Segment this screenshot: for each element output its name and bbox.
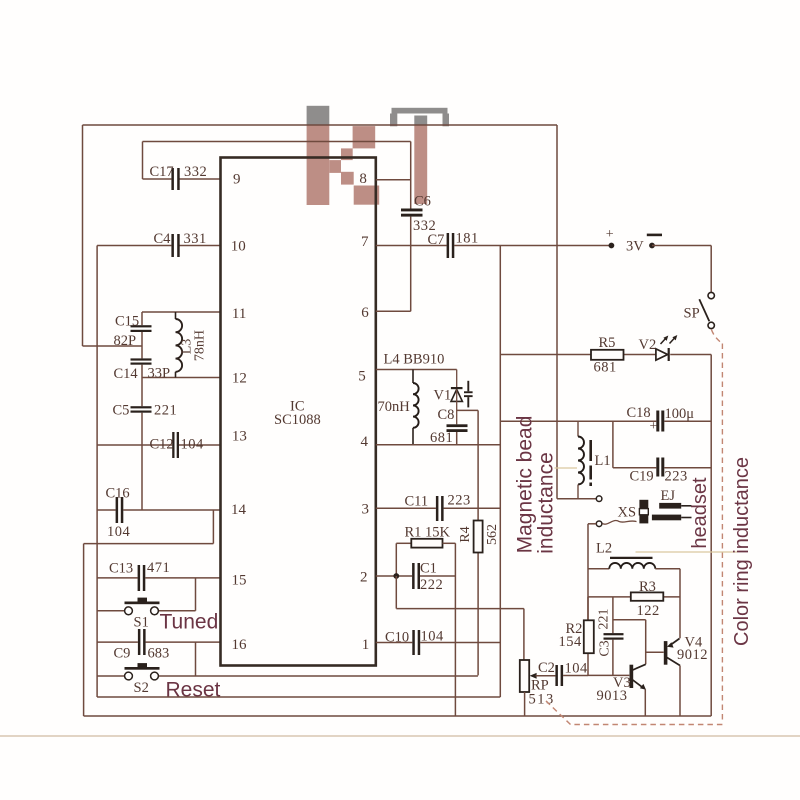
LED V2 — [639, 335, 678, 361]
svg-text:78nH: 78nH — [193, 330, 208, 361]
svg-text:C5: C5 — [113, 403, 130, 419]
capacitor C1 — [412, 561, 443, 594]
node pin2 dot — [393, 573, 399, 579]
svg-text:R1 15K: R1 15K — [405, 525, 451, 541]
pin 10 — [231, 239, 246, 255]
svg-text:C16: C16 — [106, 486, 130, 502]
pin 6 — [361, 305, 369, 321]
capacitor C2 — [538, 660, 588, 686]
switch S2 — [97, 642, 478, 696]
svg-text:headset: headset — [689, 477, 711, 549]
capacitor C17 — [150, 164, 208, 190]
svg-text:V2: V2 — [639, 337, 657, 353]
wire R3 row — [588, 596, 680, 598]
svg-text:104: 104 — [181, 437, 205, 453]
svg-text:683: 683 — [148, 646, 170, 662]
capacitor C6 — [401, 194, 436, 235]
wire pin14 row / C16 — [97, 509, 220, 511]
capacitor C9 — [114, 629, 170, 662]
svg-text:15: 15 — [232, 573, 247, 589]
label Reset — [166, 679, 221, 702]
capacitor C14 — [114, 358, 171, 382]
svg-text:223: 223 — [665, 469, 688, 485]
svg-text:14: 14 — [231, 502, 247, 518]
inductor L4 — [378, 370, 419, 445]
transistor V4 — [664, 635, 708, 666]
wire pin9 row / C17 — [143, 178, 221, 180]
svg-text:SP: SP — [684, 306, 700, 322]
svg-text:XS: XS — [618, 505, 637, 521]
wire RP wiper to C2 — [536, 675, 556, 677]
wire C18 L1 row — [500, 420, 711, 422]
svg-text:9012: 9012 — [677, 647, 708, 663]
callout line color ring — [636, 551, 738, 553]
capacitor C3 — [597, 609, 624, 657]
capacitor C13 — [109, 560, 170, 591]
svg-text:EJ: EJ — [661, 488, 676, 504]
pin 2 — [360, 570, 368, 586]
svg-text:82P: 82P — [114, 333, 137, 349]
svg-text:Magnetic bead: Magnetic bead — [514, 416, 537, 554]
capacitor C18 — [627, 405, 695, 433]
svg-text:332: 332 — [184, 164, 207, 180]
label Tuned — [160, 611, 219, 634]
jack node lower circle — [596, 520, 636, 526]
svg-text:10: 10 — [231, 239, 246, 255]
svg-text:R5: R5 — [599, 335, 616, 351]
svg-text:104: 104 — [421, 629, 445, 645]
svg-text:7: 7 — [361, 234, 369, 250]
svg-text:C14: C14 — [114, 366, 139, 382]
wire C6 column — [410, 142, 412, 312]
svg-text:3V: 3V — [626, 239, 644, 255]
wire bus bottom — [97, 696, 500, 698]
svg-text:104: 104 — [565, 661, 589, 677]
transistor V3 — [597, 664, 647, 704]
svg-text:inductance: inductance — [535, 452, 558, 554]
svg-text:8: 8 — [359, 171, 367, 187]
wire right rail — [710, 355, 712, 717]
resistor R3 — [631, 579, 664, 619]
svg-text:221: 221 — [154, 403, 177, 419]
svg-text:5: 5 — [358, 369, 366, 385]
svg-text:221: 221 — [597, 609, 612, 630]
wire V3 emitter down — [644, 690, 646, 717]
resistor R2 — [559, 597, 594, 653]
svg-text:C9: C9 — [114, 646, 131, 662]
scan fold line — [0, 735, 800, 737]
wire C8 to pin4 row — [456, 432, 458, 445]
svg-text:9: 9 — [233, 172, 241, 188]
svg-text:6: 6 — [361, 305, 369, 321]
svg-text:16: 16 — [232, 637, 248, 653]
label L4 BB910 — [384, 352, 445, 368]
wire pin16 row / C9 — [97, 641, 220, 643]
wire pin13 row / C12 — [97, 444, 220, 446]
wire left bus — [96, 246, 98, 698]
wire pin10 row / C4 — [97, 245, 220, 247]
svg-text:SC1088: SC1088 — [274, 412, 321, 428]
headset plug EJ — [652, 488, 692, 520]
wire ground column — [454, 543, 456, 716]
svg-text:S2: S2 — [134, 680, 149, 696]
wire C19 row — [613, 467, 711, 469]
switch SP — [684, 292, 715, 328]
svg-text:70nH: 70nH — [378, 399, 411, 415]
wire L1 bottom row — [557, 498, 596, 500]
pin 4 — [361, 434, 369, 450]
wire pin1 row / C10 — [376, 642, 501, 644]
wire pin12 row — [142, 377, 221, 379]
wire pin11 row — [142, 311, 221, 313]
potentiometer RP — [520, 660, 555, 716]
svg-text:Reset: Reset — [166, 679, 221, 702]
svg-text:154: 154 — [559, 634, 583, 650]
svg-text:S1: S1 — [134, 615, 149, 631]
wire pin14 ground link — [84, 543, 214, 545]
capacitor C16 — [106, 486, 131, 541]
pin 7 — [361, 234, 369, 250]
svg-text:11: 11 — [232, 306, 246, 322]
wire main V+ column — [499, 246, 501, 698]
wire top border — [83, 124, 558, 126]
inductor L2 — [588, 541, 680, 569]
wire V3 base — [588, 674, 629, 676]
capacitor C12 — [150, 432, 205, 458]
label Color ring inductance — [731, 457, 753, 646]
svg-text:681: 681 — [430, 430, 453, 446]
wire V4 base — [646, 651, 664, 653]
svg-text:C3: C3 — [598, 640, 613, 656]
svg-text:L2: L2 — [596, 541, 612, 557]
wire pin2 row / C1 — [376, 575, 456, 577]
svg-text:4: 4 — [361, 434, 369, 450]
jack XS — [618, 500, 649, 524]
wire C2 to V3 base — [563, 675, 588, 677]
pin 9 — [233, 172, 241, 188]
callout line magnetic bead — [555, 467, 578, 469]
svg-text:223: 223 — [448, 493, 471, 509]
wire border to C15/C14 node — [83, 345, 143, 347]
wire lower left vertical — [83, 544, 85, 716]
svg-text:C18: C18 — [627, 405, 651, 421]
svg-text:562: 562 — [485, 524, 500, 545]
pin 3 — [362, 502, 370, 518]
svg-text:C2: C2 — [538, 660, 555, 676]
dashed link SP to RP — [545, 330, 723, 725]
wire C15/C14/C5 column — [141, 312, 143, 510]
switch S1 — [97, 578, 195, 631]
label Magnetic bead inductance — [514, 416, 558, 554]
jack node upper circle — [596, 496, 602, 502]
wire left border — [82, 125, 84, 346]
wire antenna column — [556, 125, 558, 499]
svg-text:100μ: 100μ — [665, 406, 695, 422]
svg-text:104: 104 — [107, 524, 131, 540]
svg-text:1: 1 — [362, 637, 370, 653]
svg-text:C6: C6 — [414, 194, 431, 210]
svg-text:C19: C19 — [630, 469, 654, 485]
wire pin6 stub — [376, 310, 411, 312]
wire volume feed — [396, 576, 524, 660]
svg-text:331: 331 — [184, 231, 207, 247]
svg-text:C1: C1 — [420, 561, 437, 577]
pin 16 — [232, 637, 248, 653]
svg-text:12: 12 — [232, 371, 247, 387]
capacitor C7 — [428, 231, 479, 259]
svg-text:122: 122 — [637, 603, 660, 619]
wire C18 C19 link — [612, 421, 614, 468]
wire pin7 / C7 row — [376, 245, 612, 247]
pin 11 — [232, 306, 246, 322]
wire pin8 stub — [376, 179, 411, 181]
wire switch feed — [710, 246, 712, 293]
svg-text:C17: C17 — [150, 164, 174, 180]
svg-text:C15: C15 — [115, 314, 139, 330]
svg-text:471: 471 — [147, 560, 170, 576]
wire pin14 drop — [212, 510, 214, 544]
wire pin5 row — [376, 369, 457, 371]
capacitor C5 — [113, 403, 178, 419]
svg-text:L4 BB910: L4 BB910 — [384, 352, 445, 368]
svg-text:3: 3 — [362, 502, 370, 518]
wire C17 loop top — [143, 141, 411, 143]
pin 5 — [358, 369, 366, 385]
svg-text:C7: C7 — [428, 232, 445, 248]
label headset — [689, 477, 711, 549]
svg-text:V1: V1 — [434, 388, 452, 404]
watermark letter K — [307, 106, 380, 205]
IC name — [274, 399, 321, 429]
wire R1 left — [395, 543, 397, 576]
inductor L3 — [176, 312, 208, 378]
capacitor C11 — [405, 493, 471, 522]
capacitor C8 — [430, 407, 468, 446]
wire XS to L2 — [588, 524, 596, 621]
pin 14 — [231, 502, 247, 518]
svg-text:33P: 33P — [148, 366, 171, 382]
pin 8 — [359, 171, 367, 187]
svg-text:9013: 9013 — [597, 688, 628, 704]
wire pin4 row — [376, 444, 501, 446]
capacitor C19 — [630, 458, 688, 485]
wire pin3 row / C11 — [376, 507, 501, 509]
svg-text:L1: L1 — [595, 453, 611, 469]
op-amp U1 IC SC1088 body — [221, 158, 376, 666]
pin 13 — [232, 429, 247, 445]
pin 1 — [362, 637, 370, 653]
svg-text:681: 681 — [594, 360, 617, 376]
capacitor C10 — [385, 629, 444, 656]
wire V4 collector down — [679, 666, 681, 717]
svg-text:C13: C13 — [109, 561, 133, 577]
svg-text:Tuned: Tuned — [160, 611, 219, 634]
svg-text:181: 181 — [456, 231, 479, 247]
svg-text:R3: R3 — [639, 579, 656, 595]
wire C17 loop left — [142, 142, 144, 180]
battery 3V — [606, 227, 711, 254]
capacitor C15 — [114, 314, 152, 350]
svg-text:2: 2 — [360, 570, 368, 586]
wire V3 drive — [613, 620, 646, 665]
wire bottom rail — [84, 715, 712, 717]
svg-text:513: 513 — [529, 692, 555, 708]
svg-text:13: 13 — [232, 429, 247, 445]
watermark letter T — [390, 108, 449, 204]
wire pin15 row / C13 — [97, 577, 220, 579]
wire R5 V2 row — [500, 354, 711, 356]
svg-text:Color ring inductance: Color ring inductance — [731, 457, 753, 646]
resistor R4 — [458, 521, 500, 553]
svg-text:+: + — [650, 418, 658, 433]
wire varactor to R4 — [457, 409, 478, 411]
svg-text:C11: C11 — [405, 494, 429, 510]
wire R2 bottom link — [587, 653, 589, 675]
wire R4 column — [477, 410, 479, 675]
pin 12 — [232, 371, 247, 387]
resistor R1 — [396, 525, 455, 548]
capacitor C4 — [154, 231, 207, 257]
svg-text:+: + — [606, 227, 614, 242]
svg-text:R4: R4 — [458, 526, 473, 542]
svg-text:C8: C8 — [438, 407, 455, 423]
wire C3 column — [612, 597, 614, 676]
svg-text:C12: C12 — [150, 437, 174, 453]
svg-text:C4: C4 — [154, 231, 172, 247]
varactor V1 — [434, 370, 473, 425]
inductor L1 — [578, 421, 611, 499]
svg-text:C10: C10 — [385, 630, 409, 646]
resistor R5 — [591, 335, 624, 376]
wire L2 to V4 emitter — [679, 569, 681, 639]
pin 15 — [232, 573, 247, 589]
svg-text:222: 222 — [420, 577, 443, 593]
